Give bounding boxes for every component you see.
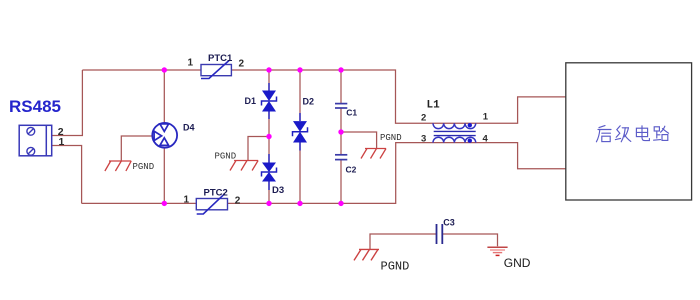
ground PGND4: [354, 249, 379, 260]
svg-text:GND: GND: [504, 256, 531, 270]
capacitor C2: [335, 155, 347, 160]
junction node bottom rail D3: [266, 201, 271, 206]
wire D1 to node: [268, 112, 270, 163]
svg-text:1: 1: [188, 58, 194, 69]
glyph hou: [596, 126, 611, 142]
svg-text:PGND: PGND: [381, 260, 410, 274]
wire node to PGND2: [248, 137, 269, 161]
wire D4 column bottom: [163, 148, 165, 204]
svg-text:PTC1: PTC1: [208, 53, 233, 64]
wire top rail left segment: [82, 69, 201, 71]
junction node C1 C2 PGND3: [338, 129, 343, 134]
capacitor C1: [335, 104, 347, 108]
ground PGND1: [105, 161, 131, 171]
junction node top rail D1: [266, 67, 271, 72]
gas discharge tube D4: [152, 123, 177, 148]
inductor L1 common-mode choke: [433, 123, 476, 143]
svg-text:L1: L1: [427, 100, 441, 112]
svg-text:1: 1: [184, 195, 190, 206]
wire C1 column top: [340, 70, 342, 104]
resistor PTC1: [201, 61, 231, 79]
junction node bottom rail D4: [162, 201, 167, 206]
svg-text:PTC2: PTC2: [204, 187, 228, 198]
wire D3 column bottom: [268, 182, 270, 204]
wire C3 right plate to GND: [442, 234, 497, 246]
resistor PTC2: [196, 194, 227, 214]
svg-text:RS485: RS485: [9, 97, 61, 116]
svg-text:3: 3: [421, 134, 426, 145]
svg-text:PGND: PGND: [133, 162, 155, 172]
junction node bottom rail C2: [338, 201, 343, 206]
svg-text:D1: D1: [245, 96, 257, 106]
junction node top rail C1: [338, 67, 343, 72]
wire top rail right segment to L1 pin2: [231, 70, 566, 123]
TVS diode D1: [262, 83, 277, 119]
svg-text:2: 2: [235, 195, 241, 206]
ground PGND2: [230, 161, 258, 171]
wire bottom rail right segment to L1 pin3: [228, 143, 567, 204]
junction node top rail D4: [162, 67, 167, 72]
wire D4 left terminal to PGND: [121, 136, 152, 161]
wire connector pin1 to bottom-left corner: [52, 146, 82, 204]
wire PGND4 to C3 left plate: [370, 234, 436, 249]
svg-text:PGND: PGND: [380, 133, 402, 143]
glyph dian: [636, 126, 649, 141]
wire bottom rail left segment: [82, 202, 197, 204]
svg-text:D2: D2: [303, 97, 315, 107]
wire connector pin2 to top-left corner: [52, 70, 82, 136]
junction node D1 D3 PGND2: [266, 134, 271, 139]
junction node bottom rail D2: [297, 201, 302, 206]
ground PGND3: [361, 149, 386, 159]
wire D4 column top: [163, 70, 165, 123]
TVS diode D3: [262, 154, 277, 190]
svg-text:C3: C3: [443, 218, 455, 228]
wire D1 column top: [268, 70, 270, 91]
block rear-stage circuit box: [566, 63, 692, 200]
wire C node to PGND3: [341, 132, 377, 149]
svg-text:D3: D3: [272, 185, 284, 196]
svg-text:PGND: PGND: [215, 152, 237, 162]
svg-text:4: 4: [483, 133, 489, 144]
svg-text:2: 2: [421, 113, 426, 124]
wire D2 column top: [299, 70, 301, 121]
connector J1 RS485 terminal block: [19, 125, 52, 156]
glyph ji: [615, 126, 630, 142]
svg-text:C2: C2: [346, 165, 357, 175]
wire C1 to node: [340, 108, 342, 155]
svg-text:C1: C1: [346, 108, 357, 118]
glyph lu: [654, 126, 669, 140]
text 后级电路: [596, 126, 668, 142]
ground GND: [487, 247, 507, 255]
junction node top rail D2: [297, 67, 302, 72]
wire C2 column bottom: [340, 160, 342, 204]
wire D2 column bottom: [299, 143, 301, 204]
svg-text:1: 1: [59, 136, 65, 148]
capacitor C3: [437, 224, 443, 244]
svg-text:D4: D4: [183, 123, 195, 133]
svg-text:1: 1: [483, 112, 489, 123]
svg-text:2: 2: [239, 59, 245, 70]
TVS diode D2: [293, 113, 308, 151]
